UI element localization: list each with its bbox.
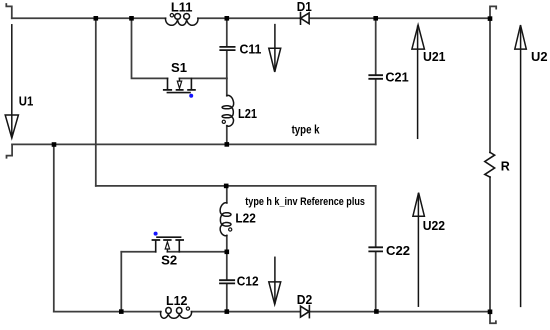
junction bottom rail / R / port — [488, 310, 493, 315]
svg-text:D2: D2 — [297, 293, 313, 307]
wire bottom rail middle segment — [192, 311, 301, 313]
svg-text:L21: L21 — [238, 107, 257, 121]
junction top rail / C11 — [225, 16, 230, 21]
junction top rail / R / port — [488, 16, 493, 21]
junction middle rail / left drop — [52, 142, 57, 147]
svg-text:U1: U1 — [19, 94, 34, 108]
voltage arrow U21 — [412, 25, 425, 138]
wire L22 branch — [226, 186, 228, 252]
wire L21 branch — [226, 78, 228, 144]
voltage arrow U22 — [413, 193, 425, 307]
wire S1 drain branch — [132, 18, 168, 78]
wire middle rail — [12, 143, 376, 145]
diode D1 — [301, 13, 310, 25]
svg-text:L12: L12 — [166, 294, 187, 308]
diode D2 — [301, 306, 310, 318]
svg-text:S1: S1 — [171, 61, 187, 75]
junction bottom rail / C12 — [225, 309, 230, 314]
svg-text:L11: L11 — [171, 1, 193, 15]
mosfet S2 gate dot — [154, 232, 158, 236]
svg-text:L22: L22 — [235, 211, 255, 225]
inductor L22 polarity dot — [229, 228, 232, 231]
svg-text:U22: U22 — [423, 219, 445, 233]
wire C11 branch — [226, 18, 228, 78]
wire bottom rail left segment — [54, 311, 161, 313]
svg-text:R: R — [501, 159, 510, 173]
mosfet S1 gate dot — [189, 94, 193, 98]
capacitor C22 — [369, 247, 382, 251]
inductor L21 polarity dot — [222, 120, 225, 123]
current arrow near C12 — [269, 257, 281, 304]
capacitor C12 — [220, 280, 234, 283]
junction top rail / C21 — [373, 16, 378, 21]
svg-text:type k: type k — [292, 124, 320, 136]
voltage arrow U2 — [515, 25, 527, 306]
capacitor C11 — [220, 47, 234, 50]
junction top rail / S1 branch — [129, 16, 134, 21]
wire S1 to node — [180, 77, 227, 79]
wire R branch — [489, 18, 491, 311]
inductor L11 polarity dot — [170, 14, 173, 17]
junction bottom rail / C22 — [374, 309, 379, 314]
svg-text:U21: U21 — [423, 50, 446, 64]
mosfet S1 — [164, 78, 195, 92]
capacitor C21 — [369, 75, 382, 79]
junction bottom rail / S2 branch — [119, 309, 124, 314]
port top-right — [490, 6, 496, 18]
junction S2 drain / L22 / C12 — [225, 250, 230, 255]
wire left drop to bottom rail — [53, 144, 55, 311]
svg-text:U2: U2 — [531, 50, 548, 64]
port top-left — [6, 4, 12, 18]
mosfet S2 — [153, 237, 184, 252]
inductor L21 — [222, 95, 234, 126]
junction lower-stage rail / L22 — [224, 184, 229, 189]
wire top rail left segment — [12, 17, 166, 19]
wire S2 down branch — [120, 252, 122, 312]
current arrow near C11 — [269, 25, 281, 72]
inductor L11 — [166, 14, 199, 26]
wire C22 branch — [375, 186, 377, 312]
inductor L12 — [161, 308, 192, 319]
svg-text:D1: D1 — [297, 0, 312, 14]
wire vertical branch to lower stage — [95, 18, 97, 186]
junction middle rail / L21 — [225, 142, 230, 147]
inductor L22 — [220, 203, 231, 236]
resistor R — [485, 152, 495, 177]
wire bottom rail right segment — [309, 311, 490, 313]
port bottom-right — [490, 312, 496, 324]
svg-text:C22: C22 — [386, 244, 410, 258]
inductor L12 polarity dot — [186, 307, 189, 310]
wire S2 row right — [167, 251, 226, 253]
svg-text:type h k_inv Reference plus: type h k_inv Reference plus — [245, 196, 365, 208]
svg-text:C12: C12 — [237, 274, 259, 288]
wire top rail middle segment — [198, 17, 301, 19]
svg-text:C11: C11 — [240, 42, 262, 56]
svg-text:S2: S2 — [161, 254, 177, 268]
junction top rail / lower-stage feed — [94, 16, 99, 21]
svg-text:C21: C21 — [385, 70, 408, 84]
wire C12 branch — [226, 252, 228, 312]
wire S2 row left — [121, 251, 155, 253]
voltage arrow U1 — [5, 25, 18, 138]
wire C21 branch — [375, 18, 377, 144]
wire lower stage rail — [96, 185, 376, 187]
wire top rail right segment — [309, 17, 490, 19]
port bottom-left — [7, 144, 13, 157]
